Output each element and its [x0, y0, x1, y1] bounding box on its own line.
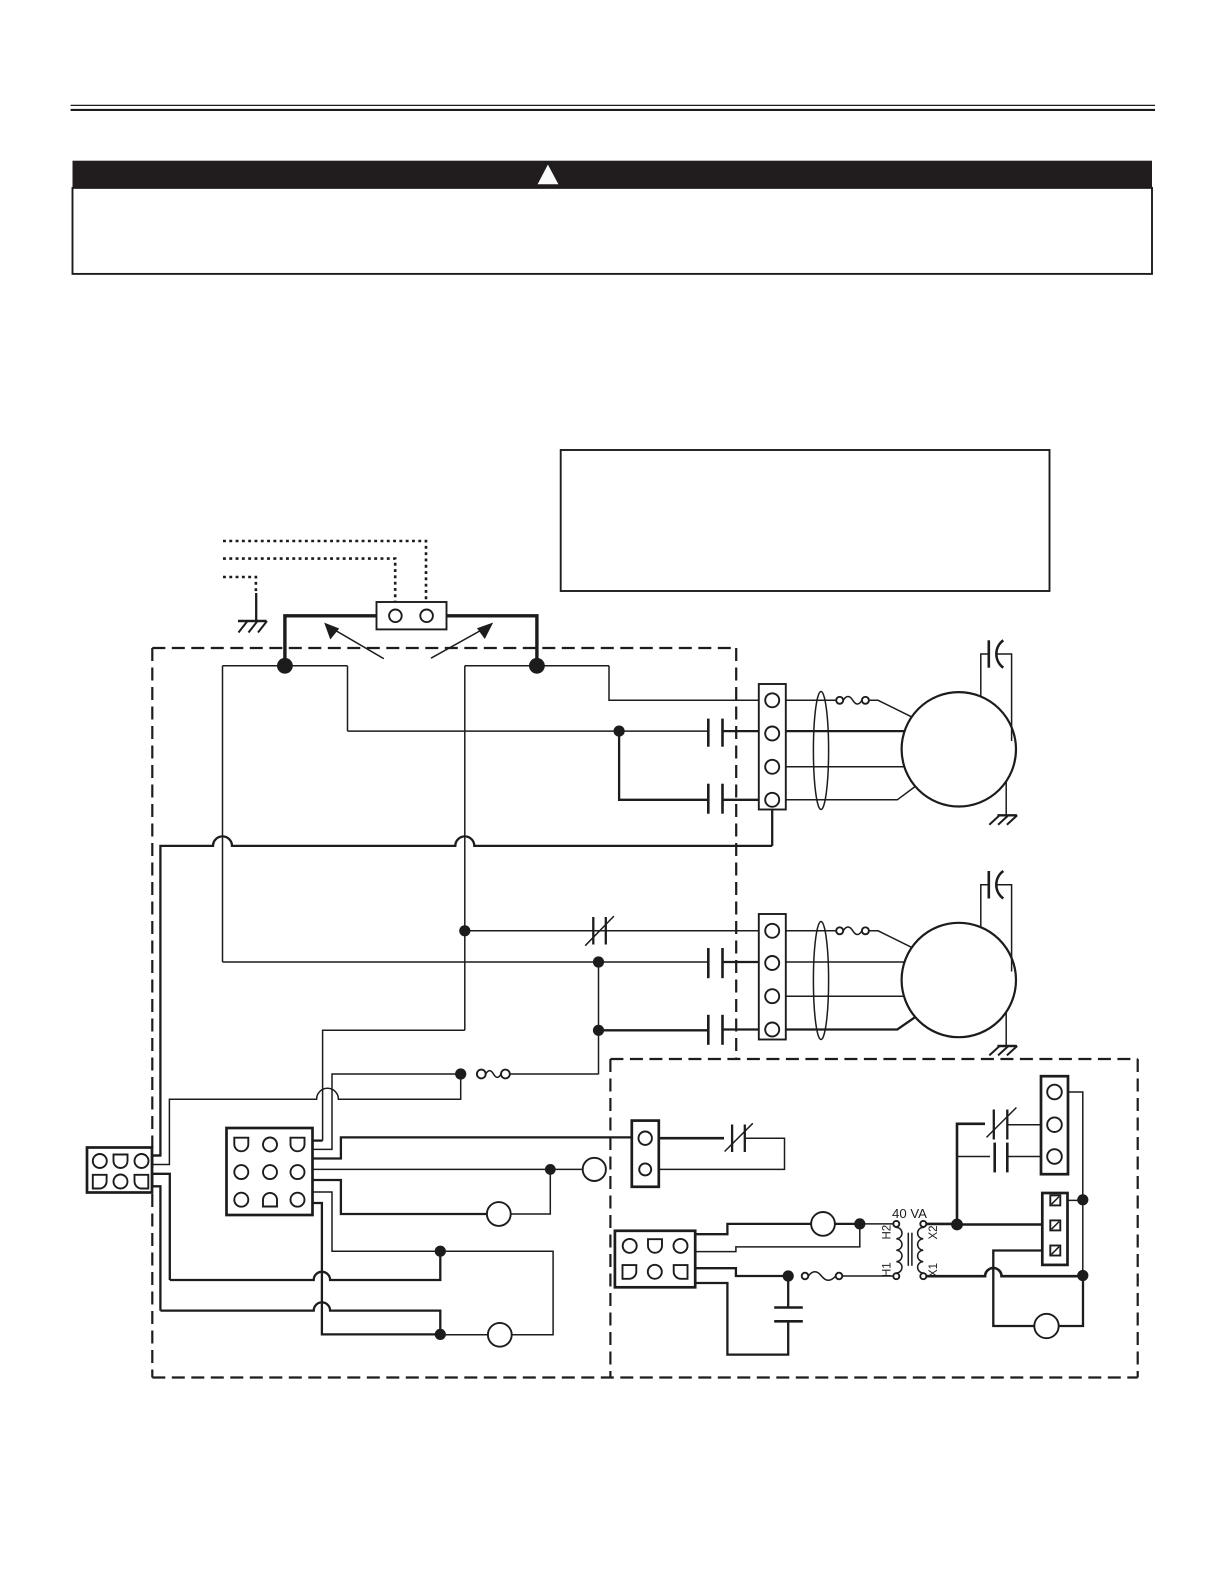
P1 pin D — [114, 1155, 128, 1169]
terminal block TB1 — [759, 684, 786, 810]
dashed enclosure: line-voltage unit box — [152, 648, 736, 1378]
wire X1 with hop — [926, 1268, 1083, 1276]
wire door switch loop (hot) — [659, 1137, 724, 1140]
wire cap to motor side — [998, 654, 1012, 741]
ground M2 — [989, 1046, 1017, 1055]
plug block PB (2-pin) — [632, 1121, 659, 1187]
wire TB2 pin2 to motor — [786, 961, 905, 963]
wire TB1 pin4 common drop — [771, 807, 773, 846]
TB1 pin 1 — [765, 693, 779, 707]
P2 pin circle — [291, 1165, 305, 1179]
P2 pin D — [291, 1138, 305, 1152]
P1 pin circle — [135, 1154, 149, 1168]
capacitor control — [995, 1143, 1008, 1173]
P1 pin circle — [93, 1154, 107, 1168]
wire 9pin W4 return (thin) — [313, 1168, 583, 1170]
wire L2 elbow to 9-pin — [323, 1030, 465, 1140]
note box — [561, 450, 1050, 591]
wire M2 pin4 branch — [599, 1029, 709, 1031]
arrow left — [324, 623, 384, 659]
wire cap branch — [957, 1156, 990, 1158]
junction M2 pin2 tap — [593, 956, 604, 967]
TB1 pin 3 — [765, 760, 779, 774]
pressure switch (NC) — [987, 1108, 1017, 1140]
wire common bus with hops — [153, 836, 773, 1155]
wire L2 bus — [465, 665, 609, 667]
PB pin 1 — [639, 1132, 652, 1145]
wire M2 pin1 to fuse — [786, 930, 836, 932]
wire cap return to plug P3-4 — [695, 1283, 788, 1355]
svg-text:40 VA: 40 VA — [892, 1206, 927, 1221]
wire interlock drop — [598, 962, 600, 1074]
wire cap to TB3 pin3 — [1007, 1156, 1047, 1158]
P2 pin circle — [234, 1193, 248, 1207]
wire relay coil bus B — [160, 1302, 440, 1334]
wire fuse to motor M2 — [869, 931, 912, 948]
T1 terminal X2 — [920, 1221, 926, 1227]
motor M2 (blower) — [902, 923, 1016, 1037]
TB-T terminal 2 — [420, 610, 433, 623]
P3 pin D — [648, 1239, 662, 1253]
wire cap to motor top — [981, 885, 989, 927]
wire X2 node to quick-connect 2 — [957, 1223, 1050, 1226]
P2 pin D — [234, 1138, 248, 1152]
wire cap to motor top — [981, 654, 989, 696]
field wiring terminal block TB-T — [377, 602, 447, 629]
P1 pin quarter mirrored — [135, 1175, 149, 1189]
wire junction A to relay coil — [440, 1251, 553, 1335]
wire plug P1-1 common — [153, 1154, 161, 1156]
wire TB1 pin3 to motor — [786, 766, 905, 768]
P2 pin circle — [291, 1193, 305, 1207]
wire fuse to H1 — [842, 1275, 893, 1277]
junction B — [435, 1329, 446, 1340]
T1 terminal H2 — [893, 1221, 899, 1227]
TB2 pin 2 — [765, 956, 779, 970]
TB2 pin 3 — [765, 989, 779, 1003]
wire plug P3-3 to fuse — [695, 1268, 785, 1276]
sensor component bubble — [487, 1202, 511, 1226]
P3 pin quarter mirrored — [674, 1265, 688, 1279]
wire L1 drop left — [222, 666, 224, 962]
junction M1 cap tap — [614, 726, 625, 737]
wire switch to TB3 pin2 — [1007, 1124, 1047, 1126]
wire H2 node to transformer — [860, 1223, 894, 1225]
capacitor M1 start (pin4) — [708, 784, 722, 814]
T1 secondary coil — [918, 1227, 924, 1273]
plug P3 (6-pin control plug) — [615, 1231, 695, 1288]
junction thermal fuse tap — [455, 1068, 466, 1079]
wire loom ellipse M2 — [813, 922, 828, 1040]
fuse link low-voltage H1 — [802, 1272, 843, 1281]
wire TB2 pin3 to motor — [786, 995, 906, 997]
terminal block TB2 — [759, 914, 786, 1040]
wire 9pin W6 to junction A — [313, 1192, 441, 1251]
wire L1 branch to M1 run cap — [347, 666, 349, 731]
wire cap to TB2 pin2 — [723, 961, 759, 963]
motor M1 (condenser fan) — [902, 692, 1016, 806]
thermal fuse link M1 — [836, 697, 869, 705]
wire fuse to interlock drop — [510, 1073, 599, 1075]
relay bubble (humidifier) — [1034, 1314, 1058, 1338]
wire relay coil bus A — [170, 1251, 441, 1280]
P1 pin circle — [114, 1175, 128, 1189]
TB1 pin 2 — [765, 727, 779, 741]
wire TB1 pin4 to motor — [786, 786, 917, 800]
plug P1 (6-pin line plug) — [87, 1148, 152, 1193]
junction quick-connect top — [1077, 1194, 1088, 1205]
wire sensor return with double hop — [153, 1074, 461, 1165]
P2 pin circle — [234, 1165, 248, 1179]
junction cap tap — [783, 1270, 794, 1281]
wire bubble to X1 node — [1059, 1276, 1083, 1327]
wire M1 pin4 branch — [619, 731, 708, 800]
wire junction riser lower — [1082, 1200, 1084, 1276]
wire TB1 pin2 to motor — [786, 730, 905, 732]
P3 pin circle — [648, 1265, 662, 1279]
junction X1 node — [1077, 1270, 1088, 1281]
wire TB2 pin4 to motor — [786, 1016, 917, 1029]
wire quick-connect 3 loop to relay bubble — [993, 1251, 1050, 1327]
wire 9pin W1 elbow — [313, 1139, 323, 1141]
wire cap to TB2 pin4 — [723, 1028, 759, 1030]
capacitor M1 top (polarized) — [989, 640, 1004, 667]
quick-connect terminal strip QC — [1042, 1193, 1067, 1265]
warning text box — [73, 188, 1153, 274]
TB3 pin 1 — [1047, 1085, 1062, 1100]
wire X2 riser to pressure switch — [957, 1124, 985, 1225]
P2 pin circle — [263, 1138, 277, 1152]
wire plug P1-3 — [153, 1174, 170, 1280]
thermostat wire (dotted) row 1 — [223, 541, 426, 602]
wire L2 drop mid — [464, 666, 466, 1031]
P3 pin circle — [674, 1239, 688, 1253]
capacitor M2 start (pin4) — [708, 1015, 722, 1045]
junction H2 node — [854, 1218, 865, 1229]
TB-T terminal 1 — [389, 610, 402, 623]
wire motor M2 to ground — [1005, 1012, 1007, 1046]
wire 9pin W7 — [313, 1203, 441, 1334]
P3 pin circle — [623, 1239, 637, 1253]
wire cap to motor side — [998, 885, 1012, 972]
wire fuse to motor M1 — [869, 700, 912, 717]
wire 9pin W5 to sensor — [313, 1180, 488, 1214]
wire cap branch drop — [787, 1276, 789, 1308]
wire X2 to relay terminal — [926, 1223, 957, 1226]
QC spade 1 — [1050, 1195, 1060, 1205]
thermal fuse link M2 — [836, 927, 869, 935]
door switch (NC) — [725, 1123, 753, 1152]
wire ground stem — [255, 593, 257, 621]
thermostat wire (dotted) row 3 to ground — [223, 577, 256, 594]
T1 primary coil — [896, 1227, 902, 1273]
T1 core — [907, 1233, 909, 1266]
gas valve bubble — [811, 1212, 835, 1236]
plug P2 (9-pin control plug) — [227, 1128, 313, 1215]
T1 terminal X1 — [920, 1273, 926, 1279]
wire 9pin W3 to plug block — [313, 1137, 632, 1158]
thermal fuse link low voltage — [477, 1070, 510, 1079]
wire motor M1 to ground — [1005, 781, 1007, 815]
PB pin 2 — [639, 1163, 651, 1175]
wire plug P1-4 — [153, 1186, 161, 1310]
wire plug P3-1 to gas valve — [695, 1224, 811, 1234]
TB2 pin 1 — [765, 924, 779, 938]
transformer T1 — [893, 1221, 926, 1279]
wire L1 feed (thick) — [285, 616, 377, 666]
capacitor M2 top (polarized) — [989, 871, 1004, 899]
wire sensor to tap — [511, 1169, 551, 1214]
terminal block TB3 — [1041, 1076, 1068, 1174]
wire quick-connect 1 to junction — [1060, 1199, 1083, 1201]
junction L2 — [529, 658, 545, 674]
limit switch (NC) M2 — [585, 916, 614, 946]
wire cap to TB1 pin2 — [723, 730, 759, 732]
header double rule — [71, 105, 1155, 110]
wire switch return loop — [659, 1138, 785, 1169]
wire cap to TB1 pin4 — [723, 799, 759, 801]
wire limit feed elbow — [313, 1074, 458, 1149]
P2 pin circle — [263, 1165, 277, 1179]
wire TB3 pin1 riser — [1062, 1092, 1083, 1200]
arrow right — [431, 623, 493, 659]
TB3 pin 2 — [1047, 1117, 1062, 1132]
svg-text:H2: H2 — [882, 1225, 894, 1240]
junction sensor tap — [545, 1164, 556, 1175]
junction M2 switch tap — [459, 925, 470, 936]
junction L1 — [277, 658, 293, 674]
ground (thermostat shield) — [238, 621, 267, 633]
warning banner — [73, 161, 1153, 188]
svg-text:X1: X1 — [928, 1263, 940, 1277]
svg-text:H1: H1 — [882, 1262, 894, 1277]
P3 pin quarter — [623, 1265, 637, 1279]
svg-text:X2: X2 — [928, 1225, 940, 1239]
capacitor M1 run (pin2) — [708, 719, 722, 747]
wire M2 pin2 feed — [223, 961, 709, 963]
dashed enclosure: control box — [152, 1059, 1137, 1378]
ground M1 — [989, 815, 1017, 824]
junction M2 pin4 tap — [593, 1025, 604, 1036]
thermostat wire (dotted) row 2 — [223, 559, 395, 602]
warning triangle icon — [538, 165, 559, 185]
wire valve to H2 node — [835, 1223, 860, 1225]
wire L2 branch to M1 pin1 — [609, 666, 759, 701]
indicator component (sail switch) — [583, 1158, 606, 1181]
wire L2 feed (thick) — [447, 616, 537, 666]
TB1 pin 4 — [765, 793, 779, 807]
wire loom ellipse M1 — [813, 692, 828, 810]
junction X2 node — [951, 1219, 963, 1231]
TB3 pin 3 — [1047, 1149, 1062, 1164]
P1 pin quarter — [93, 1175, 107, 1189]
capacitor M2 run (pin2) — [708, 948, 722, 978]
wire M2 pin1 feed — [465, 930, 759, 932]
relay coil bubble lower — [488, 1323, 512, 1347]
junction A — [435, 1246, 446, 1257]
wire M1 pin2 feed — [348, 730, 709, 732]
wire L1 bus — [223, 665, 348, 667]
QC spade 3 — [1050, 1246, 1060, 1256]
T1 terminal H1 — [893, 1273, 899, 1279]
P2 pin dome — [263, 1193, 277, 1207]
wire M1 pin1 to fuse — [786, 699, 836, 701]
wire coil to junction B — [440, 1334, 488, 1336]
capacitor timing — [774, 1308, 803, 1322]
QC spade 2 — [1050, 1220, 1060, 1230]
wire plug P3-2 jog — [695, 1224, 860, 1252]
TB2 pin 4 — [765, 1023, 779, 1037]
